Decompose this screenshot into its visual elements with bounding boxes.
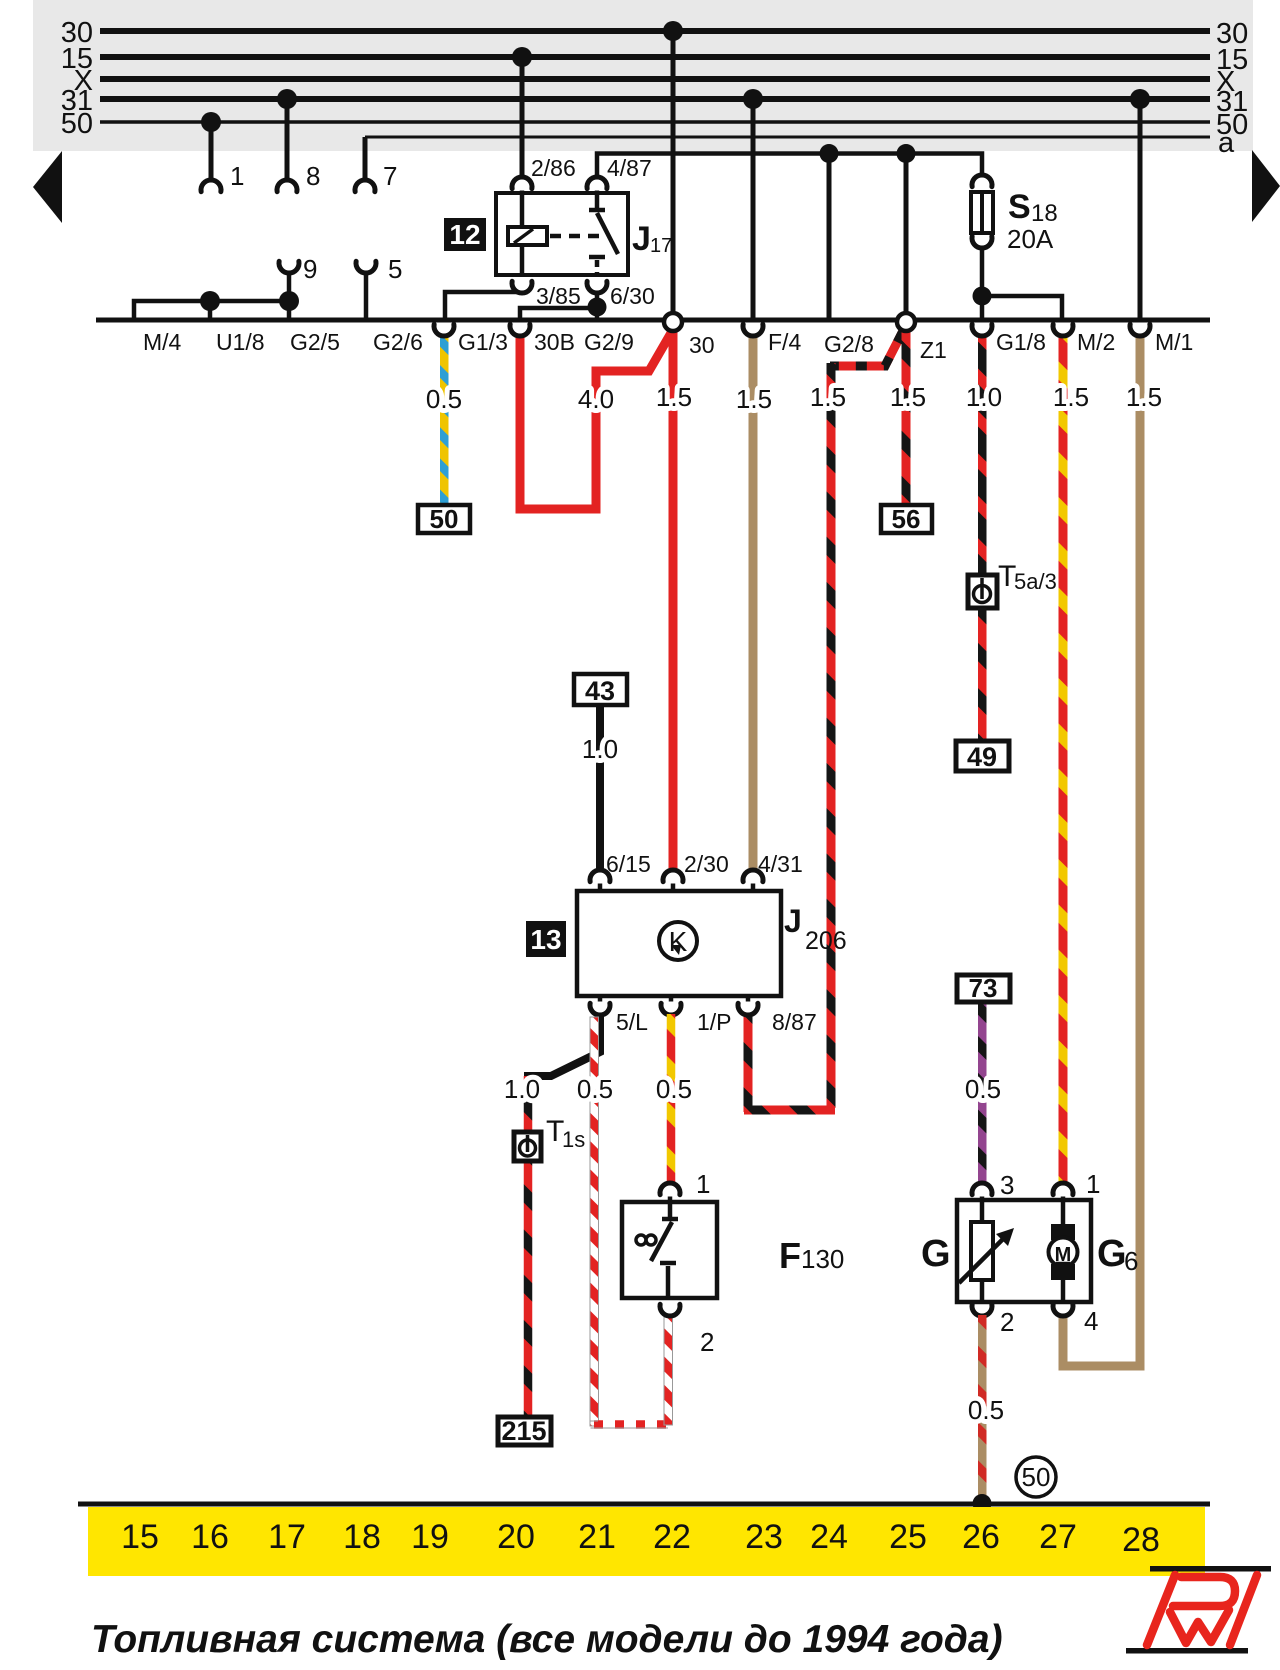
svg-text:2: 2 [1000,1307,1014,1337]
relay J17 coil [508,195,547,275]
wire fuse to main line [980,248,985,320]
svg-text:7: 7 [383,161,397,191]
svg-text:G2/5: G2/5 [290,329,340,355]
relay terminal 4/87 [587,155,652,195]
junction dot on bus 15 [512,47,532,67]
svg-text:0.5: 0.5 [577,1074,613,1104]
svg-text:4.0: 4.0 [578,384,614,414]
relay terminal 3/85 [512,281,581,309]
node circle 50 [1016,1457,1056,1497]
box 73 [957,973,1010,1003]
svg-text:1.5: 1.5 [1053,382,1089,412]
terminal 5 [356,254,402,284]
junction dot track 26 [973,1494,992,1513]
svg-text:13: 13 [530,924,561,955]
svg-text:0.5: 0.5 [656,1074,692,1104]
J206 terminal 5/L [590,996,648,1035]
box 49 [956,741,1009,772]
svg-text:1.5: 1.5 [656,382,692,412]
relay terminal 4/87 wire to fuse [597,154,982,179]
G6 motor symbol [1049,1202,1078,1302]
stub U1/8 [208,301,213,320]
wire fuse branch to M/2 [982,296,1062,320]
label 12 black box [444,218,486,251]
svg-text:1.0: 1.0 [504,1074,540,1104]
svg-text:G1/3: G1/3 [458,329,508,355]
G variable resistor symbol [959,1202,1014,1302]
svg-text:50: 50 [430,504,459,534]
svg-text:0.5: 0.5 [426,384,462,414]
junction dot on 4/87 line at G2/8 [820,144,839,163]
wire drop from bus 15 to relay terminal 2/86 [520,57,525,178]
svg-text:1: 1 [696,1169,710,1199]
svg-text:206: 206 [805,927,847,955]
svg-text:1: 1 [230,161,244,191]
wire drop to terminal 8 [285,99,290,181]
label G6 [1097,1233,1138,1276]
ground link wire M/4 U1/8 G2/5 [134,301,289,320]
wire from terminal 9 down [287,273,292,301]
svg-text:23: 23 [745,1518,783,1556]
terminal G1/3 [434,324,508,355]
logo bottom bar [1126,1648,1248,1654]
junction dot on bus 31 [277,89,297,109]
svg-text:49: 49 [967,742,997,772]
J206 terminal 8/87 [738,996,817,1035]
svg-text:18: 18 [1031,200,1058,227]
svg-text:J: J [632,220,651,258]
svg-text:12: 12 [449,219,480,250]
svg-text:6/15: 6/15 [606,851,651,877]
terminal 7 [355,161,397,192]
wire Z1 to box 56 red-black 1.5 [902,330,911,506]
wire drop from bus a to terminal 7 [363,137,368,181]
wire 8/87 red-black bottom bend [744,1106,835,1115]
relay terminal 6/30 [587,281,655,309]
wire 6/30 branch to 30B [520,308,597,320]
svg-text:21: 21 [578,1518,616,1556]
terminal F/4 [743,324,801,355]
svg-text:M/4: M/4 [143,329,182,355]
junction dot on bus 30 [663,21,683,41]
bus line a [365,127,1235,159]
svg-text:M/1: M/1 [1155,329,1193,355]
svg-text:25: 25 [889,1518,927,1556]
junction dot G2/5 [279,291,299,311]
node 30 open circle [664,313,715,358]
svg-text:Z1: Z1 [920,337,947,363]
svg-text:28: 28 [1122,1521,1160,1559]
svg-text:15: 15 [121,1518,159,1556]
logo RW red mark [1147,1575,1257,1645]
svg-text:8: 8 [306,161,320,191]
svg-text:50: 50 [1022,1462,1051,1492]
terminal 1 [201,161,244,192]
wire drop to G2/8 [827,154,832,321]
relay J17 box [496,193,628,275]
svg-text:J: J [784,903,802,939]
J206 terminal 1/P [661,996,732,1035]
relay label J17 [632,220,672,258]
wire 5/L white-red 0.5 to F130 terminal 2 [590,1017,673,1428]
svg-text:1.0: 1.0 [966,382,1002,412]
svg-text:19: 19 [411,1518,449,1556]
connector T1s [514,1115,585,1161]
label 13 black box [526,921,566,957]
wire from terminal 5 to main line [364,273,369,320]
wire 6/30 to main line [595,293,600,320]
wire drop from bus 30 to node 30 [671,31,676,314]
wire G1/8 black-red 1.0 [978,334,987,579]
label J206 [784,903,847,955]
wire F/4 to 4/31 brown 1.5 [749,334,758,869]
wire Z1 to 8/87 red-black: bend from node [830,327,905,366]
svg-text:1.5: 1.5 [1126,382,1162,412]
svg-text:16: 16 [191,1518,229,1556]
svg-text:1.5: 1.5 [736,384,772,414]
svg-text:2: 2 [700,1327,714,1357]
svg-text:G: G [1097,1233,1127,1275]
wire G terminal 2 brown-red 0.5 [978,1315,987,1504]
junction dot on bus 31 at M/1 [1130,89,1150,109]
gray bus band [33,0,1253,151]
svg-text:8/87: 8/87 [772,1009,817,1035]
svg-text:73: 73 [969,973,998,1003]
junction dot 6/30 [588,298,607,317]
svg-text:26: 26 [962,1518,1000,1556]
junction dot under fuse [973,287,992,306]
junction dot on bus 31 at F/4 [743,89,763,109]
wire 8/87 red-black up leg [744,1014,753,1112]
box 56 [881,504,932,534]
svg-text:6/30: 6/30 [610,283,655,309]
J206 terminal 2/30 [663,851,729,891]
svg-text:30: 30 [689,332,715,358]
relay J17 dashed actuator link [550,234,606,239]
wire 30B red 4.0 loop to node 30 [520,333,671,509]
bus line 31 [61,85,1249,118]
svg-text:1s: 1s [562,1127,585,1152]
bus line 50 [61,108,1249,141]
svg-text:2/30: 2/30 [684,851,729,877]
terminal 30B [510,324,575,355]
switch F130 box [622,1202,717,1298]
wire drop from bus 31 to M/1 [1138,99,1143,320]
G terminal 1 [1053,1169,1100,1202]
svg-text:G1/8: G1/8 [996,329,1046,355]
wire drop to node Z1 [904,154,909,315]
right direction arrow [1252,150,1280,222]
wire drop from bus 31 to F/4 [751,99,756,320]
svg-text:56: 56 [892,504,921,534]
G terminal 4 [1053,1304,1098,1336]
svg-text:4/31: 4/31 [758,851,803,877]
svg-text:F: F [779,1235,801,1276]
sender G box [957,1200,1091,1302]
relay J206 box [577,891,781,996]
svg-text:S: S [1008,188,1031,226]
bus line X [74,65,1236,98]
svg-text:1.5: 1.5 [890,382,926,412]
wire 5/L black to T1s [528,1014,600,1080]
J206 terminal 4/31 [743,851,803,891]
terminal 9 [279,254,317,284]
logo top bar [1150,1566,1271,1572]
box 50 [418,504,470,534]
wire 3/85 to G1/3 [445,292,518,320]
svg-text:0.5: 0.5 [968,1395,1004,1425]
relay J17 switch contact [589,195,618,275]
bus line 30 [61,17,1249,50]
svg-text:20: 20 [497,1518,535,1556]
svg-text:0.5: 0.5 [965,1074,1001,1104]
J206 K symbol [659,922,697,960]
track numbers [121,1518,1160,1559]
svg-text:F/4: F/4 [768,329,801,355]
bottom current track line [78,1502,1210,1507]
svg-text:50: 50 [61,108,93,140]
svg-text:30B: 30B [534,329,575,355]
svg-text:M/2: M/2 [1077,329,1115,355]
svg-text:5a/3: 5a/3 [1014,569,1057,594]
junction dot U1/8 [200,291,220,311]
wire G1/3 yellow-blue 0.5 [440,334,449,506]
wire box 43 to 6/15 black 1.0 [596,705,604,869]
svg-text:3: 3 [1000,1170,1014,1200]
svg-text:a: a [1218,127,1235,159]
terminal 8 [277,161,320,192]
wire T5a/3 to box 49 red-black [978,608,987,742]
svg-text:Топливная система (все модели: Топливная система (все модели до 1994 го… [91,1618,1003,1661]
wire 1/P red-yellow 0.5 to F130 terminal 1 [667,1014,676,1184]
svg-text:1.5: 1.5 [810,382,846,412]
svg-text:215: 215 [501,1416,546,1446]
svg-text:1: 1 [1086,1169,1100,1199]
svg-text:G2/6: G2/6 [373,329,423,355]
svg-text:17: 17 [650,235,672,257]
svg-text:130: 130 [801,1244,844,1274]
svg-text:9: 9 [303,254,317,284]
wire 73 violet-black 0.5 [978,1001,987,1184]
wire G2/8 red-black vertical [827,363,836,1108]
terminal M/2 [1053,324,1115,355]
relay terminal 2/86 [512,155,576,195]
yellow track strip [88,1507,1205,1576]
fuse S18 [971,175,1058,254]
stub G2/5 [287,301,292,320]
connector T5a/3 [968,560,1057,608]
junction dot on 4/87 line at Z1 [897,144,916,163]
svg-text:5: 5 [388,254,402,284]
svg-text:43: 43 [585,676,615,706]
F130 terminal 2 [660,1304,714,1357]
J206 terminal 6/15 [590,851,651,891]
G terminal 3 [972,1170,1014,1202]
svg-text:2/86: 2/86 [531,155,576,181]
wire drop to terminal 1 [209,122,214,181]
svg-text:18: 18 [343,1518,381,1556]
F130 switch symbol [636,1202,678,1298]
wire node 30 to 2/30 red 1.5 [669,331,678,869]
wire M/1 brown 1.5 to G6 terminal 4 [1063,334,1140,1366]
wire M/2 red-yellow 1.5 [1059,334,1068,1185]
svg-text:4: 4 [1084,1306,1098,1336]
node Z1 open circle [897,313,947,363]
bus line 15 [61,43,1249,76]
svg-text:27: 27 [1039,1518,1077,1556]
box 215 [498,1416,551,1446]
svg-text:4/87: 4/87 [607,155,652,181]
wire T1s red-black to box 215 [524,1076,533,1418]
label F130 [779,1235,844,1276]
svg-text:6: 6 [1124,1246,1138,1276]
svg-text:G2/9: G2/9 [584,329,634,355]
F130 terminal 1 [660,1169,710,1202]
svg-text:5/L: 5/L [616,1009,648,1035]
terminal G1/8 [972,324,1046,355]
svg-text:17: 17 [268,1518,306,1556]
black stripes on bend [830,327,905,366]
terminal M/1 [1130,324,1193,355]
junction dot on bus 50 [201,112,221,132]
svg-text:20A: 20A [1007,224,1054,254]
svg-text:U1/8: U1/8 [216,329,265,355]
svg-text:G2/8: G2/8 [824,331,874,357]
box 43 [574,674,627,706]
svg-text:1/P: 1/P [697,1009,732,1035]
svg-text:24: 24 [810,1518,848,1556]
left direction arrow [33,151,62,223]
svg-text:1.0: 1.0 [582,734,618,764]
svg-text:22: 22 [653,1518,691,1556]
svg-text:3/85: 3/85 [536,283,581,309]
svg-text:G: G [921,1233,951,1275]
G terminal 2 [972,1304,1014,1337]
main harness line [96,318,1210,323]
